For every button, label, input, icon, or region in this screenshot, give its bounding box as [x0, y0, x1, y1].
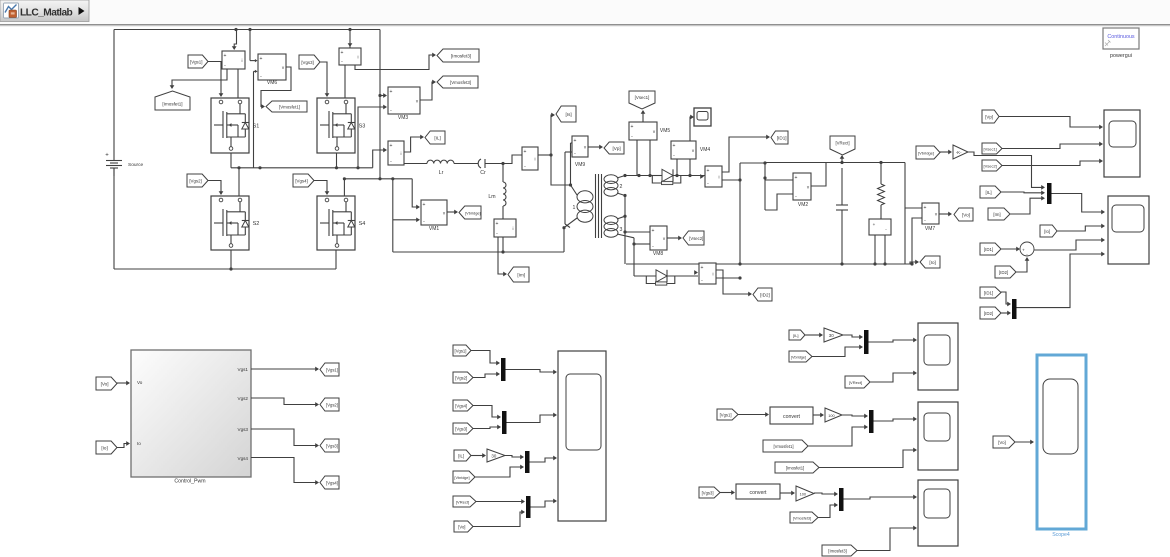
- svg-text:Source: Source: [128, 162, 144, 168]
- svg-text:[Vsec2]: [Vsec2]: [689, 236, 703, 241]
- svg-text:[IL]: [IL]: [793, 333, 799, 338]
- svg-text:[Imosfet1]: [Imosfet1]: [162, 102, 182, 107]
- svg-text:[IL]: [IL]: [434, 136, 440, 141]
- svg-text:30: 30: [491, 453, 496, 458]
- svg-text:Cr: Cr: [480, 170, 486, 176]
- svg-text:+: +: [341, 50, 344, 56]
- svg-text:Vo: Vo: [137, 380, 143, 385]
- svg-text:Scope4: Scope4: [1052, 532, 1070, 538]
- svg-text:[Vbridge]: [Vbridge]: [454, 476, 469, 480]
- svg-text:VM4: VM4: [700, 147, 711, 153]
- svg-text:[Imosfet1]: [Imosfet1]: [786, 466, 804, 471]
- svg-text:+: +: [652, 228, 655, 234]
- svg-text:[Im]: [Im]: [517, 273, 525, 278]
- svg-text:[Vmosfet3]: [Vmosfet3]: [793, 517, 811, 521]
- svg-text:+: +: [1022, 248, 1025, 253]
- svg-text:i: i: [719, 175, 720, 180]
- svg-text:+: +: [673, 143, 676, 149]
- svg-text:[Vgs1]: [Vgs1]: [720, 413, 732, 418]
- svg-text:+: +: [423, 202, 426, 208]
- svg-text:[Vgs3]: [Vgs3]: [301, 60, 313, 65]
- svg-text:+: +: [701, 265, 704, 271]
- svg-text:+: +: [707, 168, 710, 174]
- svg-text:[Vgs2]: [Vgs2]: [455, 376, 467, 381]
- svg-text:[ID2]: [ID2]: [760, 293, 770, 298]
- svg-text:Vgs3: Vgs3: [238, 427, 249, 432]
- svg-text:Lr: Lr: [439, 170, 444, 176]
- svg-text:100: 100: [828, 414, 834, 418]
- svg-text:Io: Io: [137, 441, 141, 446]
- svg-text:[Vgs3]: [Vgs3]: [326, 444, 338, 449]
- svg-text:S2: S2: [253, 221, 260, 227]
- svg-text:[Io]: [Io]: [1044, 229, 1050, 234]
- svg-text:[ID1]: [ID1]: [777, 136, 787, 141]
- svg-text:[Vbridge]: [Vbridge]: [918, 151, 934, 156]
- svg-text:+: +: [873, 222, 876, 227]
- svg-text:+: +: [795, 175, 798, 181]
- svg-text:1: 1: [573, 205, 576, 211]
- svg-text:[Vmosfet3]: [Vmosfet3]: [450, 80, 471, 85]
- svg-text:[Vbridge]: [Vbridge]: [465, 211, 481, 216]
- svg-text:VM6: VM6: [267, 80, 278, 86]
- svg-text:2: 2: [620, 184, 623, 190]
- svg-text:VM3: VM3: [398, 115, 409, 121]
- svg-text:[Vo]: [Vo]: [998, 440, 1006, 445]
- svg-text:+: +: [260, 56, 263, 62]
- svg-text:[Imosfet3]: [Imosfet3]: [828, 549, 846, 554]
- svg-text:Vgs4: Vgs4: [238, 456, 249, 461]
- svg-text:Continuous: Continuous: [1107, 34, 1135, 40]
- svg-text:[Vgs2]: [Vgs2]: [189, 179, 201, 184]
- svg-text:i: i: [713, 272, 714, 277]
- svg-text:VM1: VM1: [429, 226, 440, 232]
- svg-text:[VRect]: [VRect]: [835, 141, 849, 146]
- svg-text:convert: convert: [749, 490, 767, 496]
- svg-text:-K-: -K-: [956, 150, 962, 155]
- svg-text:VM9: VM9: [575, 162, 586, 168]
- svg-text:powergui: powergui: [1110, 53, 1132, 59]
- svg-text:[ID2]: [ID2]: [984, 311, 993, 316]
- svg-text:[ID1]: [ID1]: [984, 247, 993, 252]
- svg-text:[Im]: [Im]: [993, 212, 1000, 217]
- svg-text:[Vgs4]: [Vgs4]: [295, 179, 307, 184]
- svg-text:3: 3: [620, 227, 623, 233]
- svg-text:[Io]: [Io]: [929, 260, 935, 265]
- svg-text:+: +: [524, 149, 527, 155]
- svg-text:[Imosfet3]: [Imosfet3]: [451, 54, 471, 59]
- svg-text:[VRect]: [VRect]: [456, 500, 469, 505]
- svg-text:+: +: [496, 221, 499, 227]
- svg-text:[Vsec1]: [Vsec1]: [635, 95, 650, 100]
- svg-text:+: +: [390, 89, 393, 95]
- svg-text:[Vo]: [Vo]: [962, 213, 970, 218]
- svg-text:[Vbridge]: [Vbridge]: [791, 356, 806, 360]
- svg-text:[Vsec2]: [Vsec2]: [984, 164, 997, 169]
- svg-text:VM7: VM7: [925, 226, 936, 232]
- svg-text:+: +: [105, 153, 109, 159]
- svg-text:[Vo]: [Vo]: [458, 525, 465, 530]
- svg-text:S3: S3: [359, 124, 366, 130]
- svg-text:30: 30: [829, 333, 834, 338]
- svg-text:[Vmosfet1]: [Vmosfet1]: [279, 105, 300, 110]
- svg-text:[Vgs3]: [Vgs3]: [455, 427, 467, 432]
- svg-text:100: 100: [800, 492, 806, 496]
- svg-text:Lm: Lm: [488, 194, 495, 200]
- svg-text:Vgs2: Vgs2: [238, 396, 249, 401]
- svg-text:i: i: [358, 55, 359, 60]
- svg-text:[IL]: [IL]: [986, 190, 992, 195]
- svg-text:[Vgs1]: [Vgs1]: [326, 368, 338, 373]
- svg-text:S1: S1: [253, 124, 260, 130]
- svg-text:[Vmosfet1]: [Vmosfet1]: [773, 444, 793, 449]
- svg-text:[Vo]: [Vo]: [101, 382, 109, 387]
- svg-text:+: +: [631, 124, 634, 130]
- svg-text:[Vgs1]: [Vgs1]: [190, 60, 202, 65]
- svg-text:+: +: [390, 143, 393, 149]
- svg-text:[Vp]: [Vp]: [613, 146, 621, 151]
- svg-text:VM5: VM5: [660, 128, 671, 134]
- svg-text:Vgs1: Vgs1: [238, 367, 249, 372]
- svg-text:[Vgs3]: [Vgs3]: [702, 491, 714, 496]
- svg-text:[Io]: [Io]: [101, 446, 107, 451]
- svg-text:+: +: [924, 205, 927, 211]
- svg-text:i: i: [401, 151, 402, 156]
- svg-text:[Is]: [Is]: [566, 112, 572, 117]
- svg-text:i: i: [242, 58, 243, 63]
- svg-text:VM8: VM8: [653, 251, 664, 257]
- svg-text:VM2: VM2: [798, 202, 809, 208]
- svg-text:[VRect]: [VRect]: [849, 380, 862, 385]
- svg-text:i: i: [513, 226, 514, 231]
- svg-text:i: i: [535, 157, 536, 162]
- svg-text:[Vgs2]: [Vgs2]: [326, 403, 338, 408]
- svg-text:[Vp]: [Vp]: [985, 115, 993, 120]
- svg-text:[Vsec1]: [Vsec1]: [984, 147, 997, 152]
- svg-text:S4: S4: [359, 221, 366, 227]
- svg-text:LLC_Matlab: LLC_Matlab: [20, 7, 73, 18]
- svg-text:+: +: [224, 53, 227, 59]
- svg-text:[IL]: [IL]: [458, 454, 464, 459]
- svg-text:Control_Pwm: Control_Pwm: [174, 479, 205, 485]
- svg-text:[Vgs1]: [Vgs1]: [455, 349, 467, 354]
- svg-text:+: +: [574, 138, 577, 144]
- svg-text:[ID1]: [ID1]: [984, 291, 993, 296]
- svg-text:convert: convert: [783, 414, 801, 420]
- svg-text:[Vgs4]: [Vgs4]: [455, 404, 467, 409]
- svg-text:[ID2]: [ID2]: [999, 270, 1008, 275]
- svg-text:[Vgs4]: [Vgs4]: [326, 481, 338, 486]
